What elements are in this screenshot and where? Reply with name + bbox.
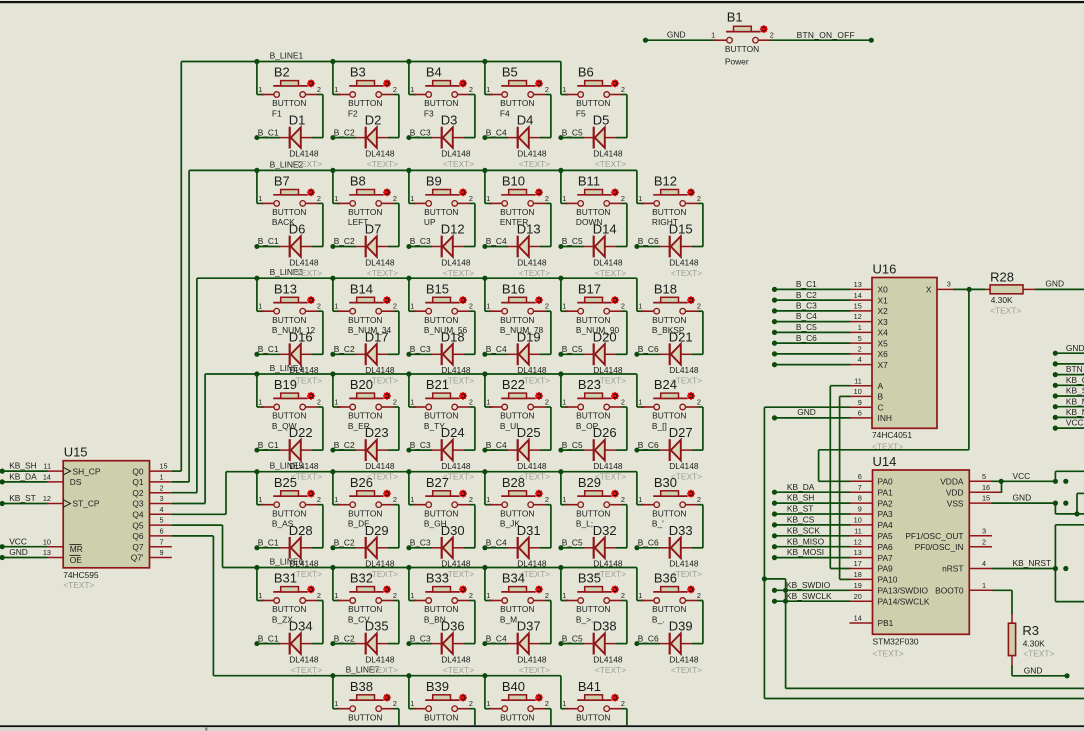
svg-text:<TEXT>: <TEXT>	[519, 665, 550, 675]
node B_C4	[486, 440, 507, 450]
diode D4 DL4148	[482, 95, 551, 170]
svg-text:B41: B41	[578, 679, 601, 694]
svg-text:KB_C: KB_C	[1066, 375, 1084, 385]
IC U14 STM32F030	[873, 454, 970, 659]
net KB_SCK (U14 pin 11)	[772, 525, 873, 538]
svg-text:B36: B36	[654, 571, 677, 586]
net KB_NRST (nRST pin 4)	[969, 525, 1084, 602]
svg-text:D5: D5	[593, 113, 610, 128]
svg-text:B39: B39	[426, 679, 449, 694]
button B18	[637, 278, 703, 335]
svg-text:KB_SWCLK: KB_SWCLK	[786, 591, 832, 601]
button B14	[333, 278, 399, 335]
svg-text:B9: B9	[426, 174, 442, 189]
svg-text:DL4148: DL4148	[517, 257, 547, 267]
svg-text:<TEXT>: <TEXT>	[291, 268, 322, 278]
svg-text:B23: B23	[578, 377, 601, 392]
svg-text:X2: X2	[878, 306, 889, 316]
svg-text:14: 14	[43, 473, 51, 482]
svg-text:D15: D15	[669, 222, 693, 237]
diode D2 DL4148	[330, 95, 399, 170]
net KB_MOSI (U14 pin 13)	[772, 547, 873, 560]
svg-text:3: 3	[160, 494, 164, 503]
svg-text:B30: B30	[654, 475, 677, 490]
svg-text:B40: B40	[502, 679, 525, 694]
node B_C2	[334, 127, 355, 137]
svg-text:F4: F4	[500, 108, 510, 118]
svg-text:<TEXT>: <TEXT>	[367, 665, 398, 675]
node B_C4	[486, 344, 507, 354]
button B34	[485, 568, 551, 625]
button B7	[257, 170, 323, 227]
U15 pin 15 (Q0) stub	[150, 462, 172, 471]
svg-text:<TEXT>: <TEXT>	[367, 159, 398, 169]
svg-text:R3: R3	[1022, 623, 1039, 638]
svg-text:15: 15	[982, 494, 990, 503]
svg-text:U16: U16	[873, 262, 897, 277]
net stub KB_S right edge	[1053, 386, 1084, 399]
svg-text:B16: B16	[502, 281, 525, 296]
diode D39 DL4148	[634, 601, 703, 676]
svg-text:B26: B26	[350, 475, 373, 490]
svg-text:D27: D27	[669, 425, 693, 440]
svg-text:3: 3	[947, 280, 951, 289]
net GND (VSS pin 15)	[969, 493, 1084, 517]
net KB_ST (U14 pin 9)	[772, 504, 873, 517]
svg-text:B_C1: B_C1	[258, 538, 279, 548]
svg-text:B_C4: B_C4	[486, 440, 507, 450]
svg-text:B_C5: B_C5	[562, 633, 583, 643]
net U16.A - U14.PA9 (pin 11)	[830, 376, 872, 568]
svg-text:<TEXT>: <TEXT>	[291, 159, 322, 169]
svg-text:PA6: PA6	[878, 542, 894, 552]
node B_C1	[258, 127, 279, 137]
IC U16 74HC4051	[872, 262, 937, 452]
diode D34 DL4148	[254, 601, 323, 676]
button B16	[485, 278, 551, 335]
diode D18 DL4148	[406, 311, 475, 386]
wire B_LINE7 bus	[172, 536, 561, 678]
diode D32 DL4148	[558, 505, 627, 580]
button B25	[257, 472, 323, 529]
node B_C4	[486, 127, 507, 137]
svg-text:B20: B20	[350, 377, 373, 392]
wire B_LINE3 bus	[172, 276, 637, 493]
node B_C6	[638, 538, 659, 548]
net KB_CS (U14 pin 10)	[772, 515, 873, 528]
node B_C6	[638, 440, 659, 450]
svg-text:B_C2: B_C2	[334, 344, 355, 354]
svg-text:B18: B18	[654, 281, 677, 296]
wire B_LINE5 bus	[172, 469, 637, 514]
svg-text:B_C2: B_C2	[796, 290, 817, 300]
svg-text:B12: B12	[654, 174, 677, 189]
button B20	[333, 374, 399, 431]
net stub GND right edge	[1053, 343, 1084, 356]
svg-text:4.30K: 4.30K	[991, 295, 1013, 305]
net VCC (VDDA pin 5 / VDD pin 16)	[969, 471, 1084, 493]
node B_C5	[562, 236, 583, 246]
diode D19 DL4148	[482, 311, 551, 386]
svg-text:10: 10	[43, 537, 51, 546]
svg-text:15: 15	[854, 302, 862, 311]
svg-text:DL4148: DL4148	[669, 559, 699, 569]
svg-text:B_C5: B_C5	[562, 236, 583, 246]
U15 pin 3 (Q3) stub	[150, 494, 172, 503]
svg-text:2: 2	[982, 537, 986, 546]
svg-text:B_C2: B_C2	[334, 127, 355, 137]
diode D33 DL4148	[634, 505, 703, 580]
diode D16 DL4148	[254, 311, 323, 386]
svg-text:DL4148: DL4148	[365, 365, 395, 375]
svg-text:2: 2	[858, 345, 862, 354]
svg-text:B1: B1	[727, 10, 743, 25]
svg-text:D1: D1	[289, 113, 306, 128]
diode D17 DL4148	[330, 311, 399, 386]
button B19	[257, 374, 323, 431]
svg-text:B33: B33	[426, 571, 449, 586]
node B_C4	[486, 236, 507, 246]
U15 pin 5 (Q5) stub	[150, 516, 172, 525]
svg-text:10: 10	[854, 387, 862, 396]
svg-text:20: 20	[854, 592, 862, 601]
svg-text:DL4148: DL4148	[593, 559, 623, 569]
svg-text:VSS: VSS	[947, 498, 964, 508]
svg-text:B_C6: B_C6	[638, 344, 659, 354]
svg-text:B31: B31	[274, 571, 297, 586]
button B22	[485, 374, 551, 431]
button B11	[561, 170, 627, 227]
net stub (unlabelled) right edge	[1053, 361, 1084, 366]
svg-text:B7: B7	[274, 174, 290, 189]
button B35	[561, 568, 627, 625]
svg-text:4: 4	[982, 559, 986, 568]
svg-text:KB_SH: KB_SH	[9, 461, 36, 471]
node B_C1	[258, 236, 279, 246]
svg-text:B_C1: B_C1	[258, 127, 279, 137]
svg-text:1: 1	[982, 581, 986, 590]
node B_C3	[410, 440, 431, 450]
svg-text:INH: INH	[878, 413, 892, 423]
svg-text:B_C4: B_C4	[486, 344, 507, 354]
svg-text:<TEXT>: <TEXT>	[1023, 649, 1054, 659]
net KB_MISO (U14 pin 12)	[772, 536, 873, 549]
svg-text:B_>.: B_>.	[576, 614, 593, 624]
diode D23 DL4148	[330, 407, 399, 482]
net KB_ST (U15 pin 12)	[0, 493, 63, 506]
svg-text:4: 4	[160, 505, 164, 514]
svg-text:11: 11	[43, 462, 51, 471]
svg-text:BTN_ON_OFF: BTN_ON_OFF	[797, 30, 855, 40]
svg-text:DL4148: DL4148	[441, 461, 471, 471]
button B32	[333, 568, 399, 625]
diode D21 DL4148	[634, 311, 703, 386]
svg-text:B_C4: B_C4	[486, 236, 507, 246]
diode D20 DL4148	[558, 311, 627, 386]
button B30	[637, 472, 703, 529]
node B_C2	[334, 538, 355, 548]
svg-text:DL4148: DL4148	[365, 257, 395, 267]
svg-text:B_C6: B_C6	[638, 440, 659, 450]
svg-text:B29: B29	[578, 475, 601, 490]
svg-text:9: 9	[160, 548, 164, 557]
svg-text:B_C1: B_C1	[258, 440, 279, 450]
svg-text:<TEXT>: <TEXT>	[671, 268, 702, 278]
svg-text:D28: D28	[289, 523, 313, 538]
button B9	[409, 170, 475, 227]
node B_C5	[562, 127, 583, 137]
svg-text:PA1: PA1	[878, 487, 894, 497]
svg-text:DL4148: DL4148	[289, 559, 319, 569]
diode D29 DL4148	[330, 505, 399, 580]
svg-text:13: 13	[43, 548, 51, 557]
wire B_LINE6 bus	[172, 525, 637, 570]
svg-text:U14: U14	[873, 454, 897, 469]
svg-text:KB_DA: KB_DA	[9, 472, 37, 482]
svg-text:KB_S: KB_S	[1066, 386, 1084, 396]
svg-text:<TEXT>: <TEXT>	[367, 268, 398, 278]
svg-text:B_C3: B_C3	[410, 538, 431, 548]
svg-text:B_C3: B_C3	[410, 344, 431, 354]
svg-text:DL4148: DL4148	[517, 148, 547, 158]
svg-text:GND: GND	[797, 407, 816, 417]
svg-text:1: 1	[858, 323, 862, 332]
button B10	[485, 170, 551, 227]
svg-text:B_[]: B_[]	[652, 421, 667, 431]
svg-text:F1: F1	[272, 108, 282, 118]
svg-text:D32: D32	[593, 523, 617, 538]
svg-text:B19: B19	[274, 377, 297, 392]
svg-text:DL4148: DL4148	[669, 257, 699, 267]
svg-text:DL4148: DL4148	[593, 257, 623, 267]
node B_C5	[562, 440, 583, 450]
svg-text:D29: D29	[365, 523, 389, 538]
svg-text:B_C6: B_C6	[638, 236, 659, 246]
node B_C4	[486, 538, 507, 548]
svg-text:D13: D13	[517, 222, 541, 237]
diode D12 DL4148	[406, 203, 475, 278]
svg-text:F5: F5	[576, 108, 586, 118]
button B15	[409, 278, 475, 335]
button B17	[561, 278, 627, 335]
net stub KB_C right edge	[1053, 375, 1084, 388]
svg-text:PA13/SWDIO: PA13/SWDIO	[878, 586, 929, 596]
svg-text:PA4: PA4	[878, 520, 894, 530]
svg-text:<TEXT>: <TEXT>	[519, 159, 550, 169]
wire B_LINE2 bus	[172, 168, 637, 482]
svg-text:B_C4: B_C4	[486, 633, 507, 643]
U15 pin 1 (Q1) stub	[150, 473, 172, 482]
button B2	[257, 62, 323, 119]
button B31	[257, 568, 323, 625]
svg-text:D20: D20	[593, 329, 617, 344]
svg-text:6: 6	[160, 527, 164, 536]
diode D31 DL4148	[482, 505, 551, 580]
resistor R28 4.30K	[937, 270, 1084, 316]
node B_C2	[334, 633, 355, 643]
svg-text:B4: B4	[426, 65, 442, 80]
svg-text:KB_ST: KB_ST	[9, 493, 36, 503]
svg-text:KB_M: KB_M	[1066, 396, 1084, 406]
U15 pin 9 (Q7') stub	[150, 548, 172, 557]
svg-text:R28: R28	[990, 270, 1014, 285]
svg-text:X1: X1	[878, 295, 889, 305]
button B29	[561, 472, 627, 529]
svg-text:<TEXT>: <TEXT>	[519, 268, 550, 278]
svg-text:DL4148: DL4148	[289, 654, 319, 664]
svg-text:D38: D38	[593, 619, 617, 634]
svg-text:KB_SCK: KB_SCK	[787, 525, 820, 535]
svg-text:D6: D6	[289, 222, 306, 237]
diode D26 DL4148	[558, 407, 627, 482]
svg-text:B_C1: B_C1	[258, 633, 279, 643]
wire C-net jog to SWD bundle	[762, 576, 1084, 688]
svg-text:D33: D33	[669, 523, 693, 538]
svg-text:B_C1: B_C1	[796, 279, 817, 289]
net B_C2 (U16 pin 14)	[772, 290, 872, 303]
button B39	[409, 676, 475, 726]
svg-text:DL4148: DL4148	[365, 654, 395, 664]
svg-text:PA9: PA9	[878, 564, 894, 574]
node B_C5	[562, 538, 583, 548]
svg-text:DL4148: DL4148	[593, 654, 623, 664]
svg-text:X7: X7	[878, 360, 889, 370]
svg-text:PF0/OSC_IN: PF0/OSC_IN	[915, 542, 964, 552]
svg-text:9: 9	[858, 398, 862, 407]
svg-text:GND: GND	[1066, 343, 1084, 353]
svg-text:GND: GND	[1024, 665, 1043, 675]
svg-text:D39: D39	[669, 619, 693, 634]
svg-text:74HC4051: 74HC4051	[872, 430, 912, 440]
U15 pin 2 (Q2) stub	[150, 483, 172, 492]
svg-text:B_C4: B_C4	[796, 311, 817, 321]
svg-text:D35: D35	[365, 619, 389, 634]
svg-text:B3: B3	[350, 65, 366, 80]
svg-text:DL4148: DL4148	[365, 559, 395, 569]
svg-text:B_C3: B_C3	[410, 236, 431, 246]
svg-text:B_C3: B_C3	[410, 440, 431, 450]
svg-text:PA2: PA2	[878, 498, 894, 508]
node B_C3	[410, 633, 431, 643]
svg-text:B25: B25	[274, 475, 297, 490]
svg-text:PA0: PA0	[878, 477, 894, 487]
svg-text:Q6: Q6	[132, 531, 144, 541]
svg-text:OE: OE	[70, 555, 83, 565]
svg-text:B_LINE1: B_LINE1	[270, 51, 304, 61]
svg-text:D22: D22	[289, 425, 313, 440]
U15 pin 7 (Q7) stub	[150, 537, 172, 546]
U14 PF0/OSC_IN stub (pin 2)	[969, 537, 992, 546]
svg-text:74HC595: 74HC595	[63, 570, 99, 580]
svg-text:13: 13	[854, 280, 862, 289]
diode D27 DL4148	[634, 407, 703, 482]
diode D38 DL4148	[558, 601, 627, 676]
node B_C3	[410, 236, 431, 246]
svg-text:7: 7	[858, 483, 862, 492]
svg-text:PA10: PA10	[878, 575, 898, 585]
svg-text:VCC: VCC	[9, 536, 27, 546]
diode D22 DL4148	[254, 407, 323, 482]
svg-text:UP: UP	[424, 217, 436, 227]
svg-text:Q7': Q7'	[131, 553, 144, 563]
svg-text:X0: X0	[878, 285, 889, 295]
node B_C1	[258, 440, 279, 450]
node B_C3	[410, 127, 431, 137]
button B21	[409, 374, 475, 431]
svg-text:5: 5	[982, 472, 986, 481]
resistor R3 4.30K (BOOT0 pin 1)	[969, 581, 1069, 679]
diode D37 DL4148	[482, 601, 551, 676]
diode D36 DL4148	[406, 601, 475, 676]
diode D3 DL4148	[406, 95, 475, 170]
svg-text:D31: D31	[517, 523, 541, 538]
svg-text:B_C5: B_C5	[562, 344, 583, 354]
svg-text:VCC: VCC	[1066, 418, 1084, 428]
net GND (U15 pin 13)	[0, 547, 63, 560]
svg-text:Q1: Q1	[132, 477, 144, 487]
svg-text:DL4148: DL4148	[365, 461, 395, 471]
svg-text:GND: GND	[1045, 279, 1064, 289]
svg-text:SH_CP: SH_CP	[73, 466, 101, 476]
svg-text:B34: B34	[502, 571, 525, 586]
net KB_DA (U15 pin 14)	[0, 472, 63, 485]
svg-text:<TEXT>: <TEXT>	[63, 580, 94, 590]
button B3	[333, 62, 399, 119]
svg-text:B_C2: B_C2	[334, 236, 355, 246]
button B13	[257, 278, 323, 335]
svg-text:KB_M: KB_M	[1066, 407, 1084, 417]
svg-text:D34: D34	[289, 619, 313, 634]
net KB_SH (U15 pin 11)	[0, 461, 63, 474]
svg-text:B_C5: B_C5	[562, 127, 583, 137]
svg-text:BTN_: BTN_	[1066, 364, 1084, 374]
svg-text:GND: GND	[1013, 493, 1032, 503]
net B_C5 (U16 pin 1)	[772, 322, 872, 335]
net KB_SWDIO (U14 pin 19)	[772, 580, 873, 593]
svg-text:nRST: nRST	[942, 564, 963, 574]
button B12	[637, 170, 703, 227]
svg-text:Q0: Q0	[132, 466, 144, 476]
svg-text:B_C6: B_C6	[638, 538, 659, 548]
svg-text:B: B	[878, 392, 884, 402]
svg-text:B_L;: B_L;	[576, 519, 593, 529]
svg-text:D4: D4	[517, 113, 534, 128]
svg-text:A: A	[878, 381, 884, 391]
svg-text:KB_SH: KB_SH	[787, 493, 814, 503]
svg-text:<TEXT>: <TEXT>	[443, 268, 474, 278]
button B8	[333, 170, 399, 227]
node B_C2	[334, 440, 355, 450]
svg-text:PB1: PB1	[878, 618, 894, 628]
svg-text:DL4148: DL4148	[289, 257, 319, 267]
svg-text:B_C3: B_C3	[796, 301, 817, 311]
svg-text:D23: D23	[365, 425, 389, 440]
svg-text:B8: B8	[350, 174, 366, 189]
button B41	[561, 676, 627, 726]
svg-text:B21: B21	[426, 377, 449, 392]
node B_C6	[638, 344, 659, 354]
diode D30 DL4148	[406, 505, 475, 580]
svg-text:11: 11	[854, 526, 862, 535]
svg-text:D19: D19	[517, 329, 541, 344]
svg-text:B_': B_'	[652, 519, 664, 529]
button B4	[409, 62, 475, 119]
svg-text:1: 1	[160, 473, 164, 482]
svg-text:D3: D3	[441, 113, 458, 128]
svg-text:DL4148: DL4148	[669, 365, 699, 375]
node B_C3	[410, 344, 431, 354]
button B36	[637, 568, 703, 625]
